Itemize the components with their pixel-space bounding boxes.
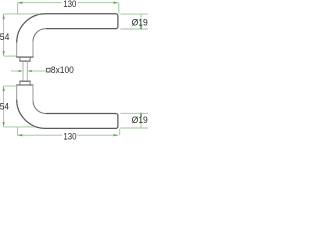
arrow 54 bottom down — [2, 122, 4, 127]
arrow 54 bottom up — [2, 86, 4, 91]
dimension line square-8 right — [32, 70, 46, 72]
top handle outer bend curve — [17, 14, 46, 43]
svg-text:54: 54 — [0, 32, 9, 42]
dimension line Ø19 top — [140, 14, 142, 29]
arrow Ø19 top tick — [140, 25, 142, 29]
dimension line 54 bottom — [3, 86, 5, 127]
svg-text:Ø19: Ø19 — [132, 17, 148, 27]
extension line Ø19 bottom upper — [120, 112, 148, 114]
extension corner bottom-left — [17, 127, 19, 135]
arrow Ø19 bottom tick — [140, 113, 142, 117]
extension line 54 bottom lower — [4, 126, 35, 128]
svg-text:54: 54 — [0, 101, 9, 111]
svg-text:130: 130 — [63, 0, 76, 9]
bottom neck right side — [32, 85, 34, 101]
bottom handle inner bend curve — [33, 101, 46, 114]
dimension line square-8 left — [11, 70, 19, 72]
extension corner top-right — [118, 3, 120, 14]
arrow 130 bottom right — [114, 134, 119, 136]
top ferrule collar bottom — [19, 60, 30, 62]
extension line 54 top upper — [4, 13, 40, 15]
top grip bar outline with right end cap — [46, 14, 118, 29]
dimension line Ø19 bottom — [140, 113, 142, 128]
dimension line 130 bottom — [18, 134, 119, 136]
extension corner top-left — [17, 3, 19, 14]
extension corner bottom-right — [119, 129, 121, 136]
arrow square-8 right — [27, 70, 31, 72]
bottom neck top line — [16, 84, 33, 86]
bottom ferrule collar sides — [20, 81, 30, 85]
dimension line 54 top — [3, 14, 5, 56]
arrow 54 top up — [2, 14, 4, 19]
extension line Ø19 bottom lower — [120, 127, 148, 129]
dimension line 130 top — [18, 2, 119, 4]
square symbol of 8x100 label — [47, 68, 51, 72]
arrow 54 top down — [2, 51, 4, 56]
arrow 130 top left — [18, 2, 23, 4]
extension line 54 top lower — [4, 55, 17, 57]
svg-text:130: 130 — [63, 132, 76, 142]
top lever handle — [16, 14, 118, 61]
top neck bottom line — [16, 56, 33, 58]
bottom neck left side — [16, 85, 18, 100]
top handle inner bend curve — [33, 29, 46, 42]
bottom ferrule collar top — [19, 80, 30, 82]
bottom handle outer bend curve — [17, 100, 46, 129]
extension line 54 bottom upper — [4, 85, 17, 87]
bottom lever handle — [16, 81, 118, 128]
arrow 130 top right — [114, 2, 119, 4]
extension line Ø19 top lower — [120, 28, 148, 30]
arrow square-8 left — [19, 70, 23, 72]
arrow 130 bottom left — [18, 134, 23, 136]
bottom grip bar outline with right end cap — [46, 114, 118, 129]
top ferrule collar sides — [20, 57, 30, 61]
svg-text:8x100: 8x100 — [51, 65, 74, 76]
extension line Ø19 top upper — [120, 13, 148, 15]
arrowheads — [2, 2, 141, 137]
svg-text:Ø19: Ø19 — [132, 115, 148, 125]
top neck right side — [32, 41, 34, 57]
dimension lines — [4, 3, 148, 136]
spindle shaft — [23, 61, 27, 81]
top neck left side — [16, 42, 18, 57]
